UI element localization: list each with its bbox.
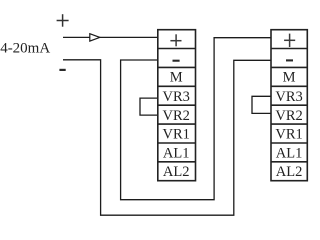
terminal block TB1 outline — [158, 30, 196, 181]
svg-text:VR3: VR3 — [275, 89, 302, 105]
svg-text:AL2: AL2 — [163, 164, 190, 180]
wire: source + to TB1 pin + — [63, 36, 158, 38]
TB2 pin - symbol — [286, 59, 293, 61]
arrow: loop current direction — [90, 34, 100, 41]
TB1 pin - symbol — [173, 60, 180, 62]
svg-text:VR1: VR1 — [162, 127, 189, 143]
svg-text:AL2: AL2 — [276, 164, 303, 180]
jumper TB1 VR3-VR2 — [140, 98, 158, 115]
jumper TB2 VR3-VR2 — [252, 96, 271, 113]
TB1 pin + symbol — [170, 34, 181, 46]
wire: source - to TB2 pin - (outer loop) — [63, 60, 271, 215]
terminal block TB2 outline — [271, 30, 307, 181]
svg-text:VR1: VR1 — [275, 127, 302, 143]
svg-text:VR2: VR2 — [162, 108, 189, 124]
wire: TB1 pin - to TB2 pin + (inner loop) — [121, 38, 271, 200]
TB2 pin + symbol — [284, 34, 295, 47]
svg-text:M: M — [283, 70, 296, 86]
source + terminal symbol — [57, 14, 69, 27]
svg-text:AL1: AL1 — [276, 145, 303, 161]
TB2 cell divider lines — [271, 49, 307, 162]
svg-text:VR2: VR2 — [275, 108, 302, 124]
svg-text:4-20mA: 4-20mA — [0, 41, 50, 57]
svg-text:AL1: AL1 — [163, 145, 190, 161]
source - terminal symbol — [59, 69, 65, 71]
TB1 cell divider lines — [158, 49, 196, 162]
svg-text:VR3: VR3 — [162, 89, 189, 105]
svg-text:M: M — [170, 70, 183, 86]
